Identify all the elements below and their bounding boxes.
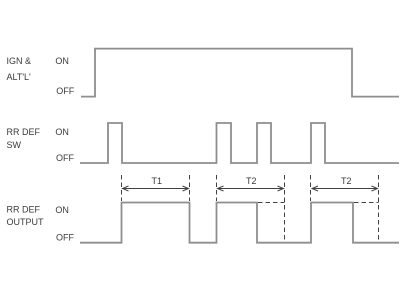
svg-text:OUTPUT: OUTPUT — [7, 217, 45, 227]
svg-text:RR DEF: RR DEF — [7, 127, 41, 137]
svg-text:OFF: OFF — [56, 86, 74, 96]
svg-text:T2: T2 — [246, 176, 257, 186]
svg-text:ON: ON — [55, 205, 69, 215]
svg-text:OFF: OFF — [56, 153, 74, 163]
svg-text:ON: ON — [55, 56, 69, 66]
svg-text:SW: SW — [7, 140, 22, 150]
svg-text:T2: T2 — [341, 176, 352, 186]
svg-text:RR DEF: RR DEF — [7, 205, 41, 215]
svg-text:IGN &: IGN & — [7, 56, 32, 66]
svg-text:OFF: OFF — [56, 233, 74, 243]
svg-text:ON: ON — [55, 127, 69, 137]
svg-text:T1: T1 — [152, 176, 163, 186]
svg-text:ALT'L': ALT'L' — [7, 72, 32, 82]
